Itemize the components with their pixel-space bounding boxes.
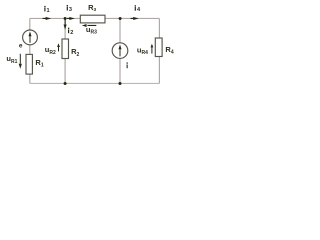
source i arrow (120, 48, 121, 56)
source e arrow (30, 35, 31, 43)
label i4 (135, 5, 141, 13)
current source i circle (112, 43, 128, 59)
arrow i4 (131, 18, 135, 19)
junction node top source (119, 17, 122, 20)
wire top rail (30, 17, 160, 19)
resistor R2 (62, 39, 69, 59)
junction node top R2 (64, 17, 67, 20)
resistor R3 (80, 15, 105, 23)
svg-text:3: 3 (69, 7, 72, 13)
label i3 (67, 5, 72, 13)
voltage source e circle (23, 30, 38, 45)
label i2 (68, 28, 73, 36)
arrow uR2 (58, 46, 59, 51)
svg-text:e: e (19, 43, 23, 50)
arrow i2 (65, 20, 66, 26)
arrow i3 (67, 18, 70, 19)
resistor R1 (26, 54, 32, 74)
label i1 (44, 6, 49, 14)
label i source (127, 62, 128, 68)
arrow uR4 (151, 47, 152, 54)
wire left branch (29, 18, 31, 83)
svg-text:1: 1 (47, 8, 50, 14)
wire right branch (158, 18, 160, 83)
wire branch R2 (64, 18, 66, 83)
junction node bottom source (119, 82, 122, 85)
wire branch current source (119, 18, 121, 83)
arrow uR3 (88, 25, 97, 26)
svg-text:2: 2 (70, 30, 73, 36)
arrow uR1 (20, 54, 21, 64)
junction node bottom R2 (64, 82, 67, 85)
wire bottom rail (30, 82, 160, 84)
resistor R4 (155, 38, 162, 57)
arrow i1 (43, 18, 47, 19)
